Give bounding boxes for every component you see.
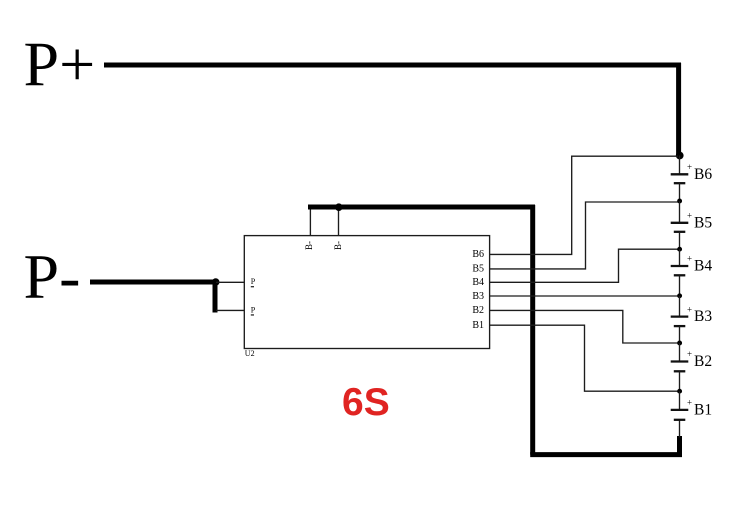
junction dot B3/B2	[677, 341, 682, 346]
svg-text:B6: B6	[694, 166, 712, 183]
svg-text:B6: B6	[472, 249, 484, 260]
wire B- thick vertical	[530, 205, 535, 455]
wire sense B3	[490, 295, 678, 297]
junction dot on B- wire	[335, 203, 343, 211]
wire B3 lead	[679, 296, 681, 317]
wire P+ horizontal	[104, 63, 681, 68]
svg-text:B1: B1	[694, 401, 712, 418]
wire P- vertical	[213, 282, 218, 313]
svg-text:B2: B2	[472, 305, 484, 316]
B5 negative plate	[674, 231, 686, 233]
svg-text:P-: P-	[24, 241, 81, 312]
battery cell B4	[671, 249, 713, 296]
wire B- thick stub up to B1 negative	[677, 436, 682, 456]
junction dot B4/B3	[677, 293, 682, 298]
B4 positive plate	[671, 265, 689, 267]
B5 positive plate	[671, 222, 689, 224]
svg-text:B3: B3	[694, 308, 712, 325]
svg-text:B4: B4	[694, 258, 712, 275]
battery cell B2	[671, 343, 712, 391]
wire sense B1	[490, 325, 678, 391]
wire B1 lead	[679, 391, 681, 410]
svg-text:6S: 6S	[342, 381, 390, 424]
svg-text:B-: B-	[304, 241, 314, 250]
B2 positive plate	[671, 360, 689, 362]
svg-text:P: P	[251, 277, 256, 286]
svg-text:B2: B2	[694, 353, 712, 370]
battery cell B3	[671, 296, 713, 343]
svg-text:B4: B4	[472, 277, 484, 288]
svg-text:+: +	[687, 304, 692, 314]
B1 positive plate	[671, 409, 689, 411]
svg-text:U2: U2	[245, 349, 255, 358]
svg-text:P+: P+	[24, 28, 96, 99]
junction dot battery top (B6+)	[676, 152, 684, 160]
wire B6 lead	[679, 183, 681, 201]
wire B- thick horizontal (top of U2 to corner)	[308, 205, 535, 210]
wire sense B2	[490, 310, 678, 343]
battery cell B6	[671, 156, 713, 202]
wire B3 lead	[679, 326, 681, 343]
svg-text:B-: B-	[333, 241, 343, 250]
battery cell B5	[671, 201, 713, 249]
wire stub to U2 pin P- lower	[216, 309, 244, 311]
svg-text:B5: B5	[472, 264, 484, 275]
wire sense B6	[490, 156, 678, 254]
junction dot P-	[212, 278, 220, 286]
B1 negative plate	[674, 419, 686, 421]
B4 negative plate	[674, 274, 686, 276]
wire B2 lead	[679, 343, 681, 362]
wire B5 lead	[679, 201, 681, 223]
battery cell B1	[671, 391, 712, 420]
wire P- horizontal	[90, 280, 218, 285]
wire thin B1 negative lead	[679, 420, 681, 438]
wire sense B4	[490, 249, 678, 282]
svg-text:+: +	[687, 398, 692, 408]
svg-text:+: +	[687, 162, 692, 172]
B6 positive plate	[671, 173, 689, 175]
wire B5 lead	[679, 232, 681, 249]
B2 negative plate	[674, 370, 686, 372]
wire B- thick bottom horizontal	[530, 452, 682, 457]
B3 positive plate	[671, 315, 689, 317]
svg-text:B5: B5	[694, 214, 712, 231]
wire B4 lead	[679, 249, 681, 266]
wire B4 lead	[679, 275, 681, 296]
wire stub to U2 pin P- upper	[216, 281, 244, 283]
pin stub B- right (top of U2)	[338, 207, 340, 236]
junction dot B5/B4	[677, 247, 682, 252]
svg-text:B1: B1	[472, 320, 484, 331]
junction dot B6/B5	[677, 199, 682, 204]
svg-text:P: P	[251, 305, 256, 314]
wire B2 lead	[679, 371, 681, 391]
B6 negative plate	[674, 182, 686, 184]
pin stub B- left (top of U2)	[309, 207, 311, 236]
wire sense B5	[490, 202, 678, 269]
svg-text:+: +	[687, 254, 692, 264]
wire P+ vertical drop to battery stack top	[676, 63, 681, 156]
wire B6 lead	[679, 156, 681, 175]
B3 negative plate	[674, 325, 686, 327]
IC U2 body	[244, 236, 489, 349]
svg-text:+: +	[687, 211, 692, 221]
junction dot B2/B1	[677, 389, 682, 394]
svg-text:+: +	[687, 349, 692, 359]
svg-text:B3: B3	[472, 291, 484, 302]
